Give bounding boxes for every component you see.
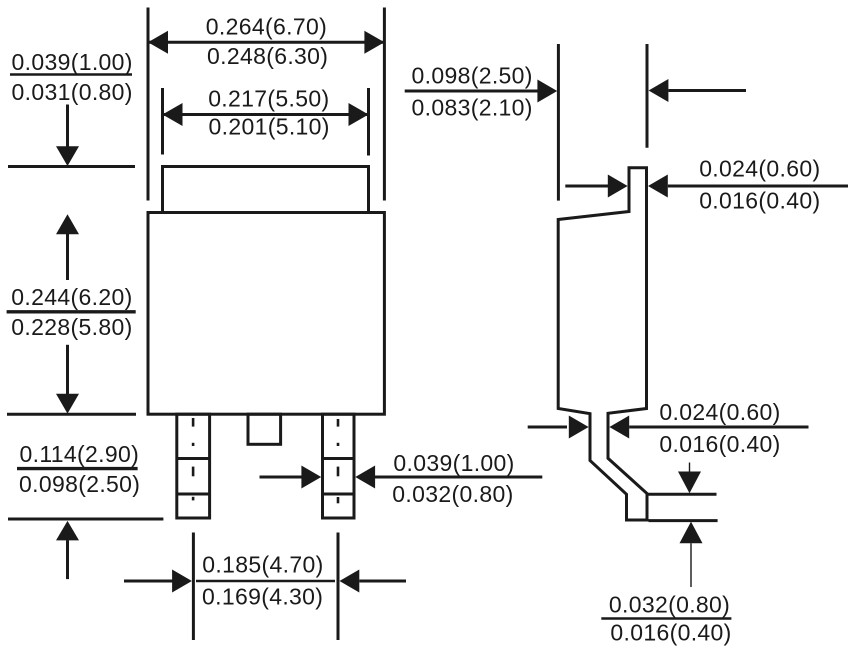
dim G extension line right (lead centerline) (337, 533, 340, 641)
svg-text:0.098(2.50): 0.098(2.50) (19, 471, 140, 497)
dim I right arrowhead (points left) (648, 175, 668, 198)
svg-text:0.039(1.00): 0.039(1.00) (393, 450, 514, 476)
dim E up arrowhead (56, 521, 79, 541)
dim K lower reference line (649, 519, 718, 522)
dim B extension line left (161, 88, 164, 155)
svg-text:0.032(0.80): 0.032(0.80) (392, 481, 513, 507)
dim H right arrowhead (points left) (649, 79, 669, 102)
dim J right arrow line / fraction bar (629, 426, 808, 429)
package side view outline (558, 168, 647, 520)
svg-text:0.185(4.70): 0.185(4.70) (202, 551, 323, 577)
right lead bend line 1 (323, 457, 355, 460)
dim I right arrow line / fraction bar (668, 185, 848, 188)
dim F right-pointing arrow line (260, 476, 303, 479)
dim G left outside arrow line (124, 580, 174, 583)
dim A extension line right (383, 8, 386, 201)
dim H left arrowhead (points right) (537, 80, 557, 103)
svg-text:0.024(0.60): 0.024(0.60) (699, 156, 820, 182)
dim K up arrow thin tail (690, 543, 692, 587)
svg-text:0.032(0.80): 0.032(0.80) (609, 591, 730, 617)
left lead bend line 2 (177, 493, 210, 496)
svg-text:0.016(0.40): 0.016(0.40) (659, 431, 780, 457)
svg-text:0.098(2.50): 0.098(2.50) (412, 63, 533, 89)
dim B 0.217/0.201 dimension line (163, 113, 369, 116)
center stub lead front view (248, 414, 281, 444)
dim F left arrow tail / fraction bar (375, 476, 542, 479)
mounting tab front view (163, 167, 369, 213)
svg-text:0.039(1.00): 0.039(1.00) (12, 49, 133, 75)
dim J right arrowhead (points left) (609, 416, 629, 439)
dim E up arrow line (66, 540, 69, 579)
svg-text:0.228(5.80): 0.228(5.80) (11, 314, 132, 340)
dim D up arrow line (66, 234, 69, 280)
dim C reference line (tab top level) (8, 165, 135, 168)
dim K upper reference line (649, 493, 717, 496)
dim D down arrowhead (56, 394, 79, 414)
dim H left arrow line / fraction bar (405, 90, 538, 93)
right lead bend line 2 (323, 493, 355, 496)
left lead centerline marks (192, 418, 195, 500)
package body front view (148, 213, 384, 415)
dim F right-pointing arrowhead (301, 466, 321, 489)
svg-text:0.169(4.30): 0.169(4.30) (202, 583, 323, 609)
dim G left arrowhead (172, 570, 192, 593)
dim B extension line right (367, 88, 370, 156)
dim K fraction bar (601, 617, 731, 619)
dim A arrowhead right (364, 31, 384, 54)
svg-text:0.264(6.70): 0.264(6.70) (206, 13, 327, 39)
dim C fraction bar (10, 73, 132, 76)
svg-text:0.201(5.10): 0.201(5.10) (209, 113, 330, 139)
dim J left arrowhead (points right) (569, 416, 589, 439)
dim E reference line (lead bottom level) (8, 518, 163, 521)
right lead front view (323, 414, 355, 518)
svg-text:0.024(0.60): 0.024(0.60) (659, 399, 780, 425)
svg-text:0.248(6.30): 0.248(6.30) (207, 43, 328, 69)
dim D fraction bar (7, 310, 136, 313)
dim C down arrow line (66, 105, 69, 148)
svg-text:0.031(0.80): 0.031(0.80) (12, 79, 133, 105)
dim E fraction bar (17, 467, 138, 470)
dim B arrowhead right (349, 103, 369, 126)
left lead bend line 1 (177, 457, 210, 460)
dim D reference line (body bottom level) (7, 413, 136, 416)
dim H right arrow line (668, 89, 746, 92)
dim H extension line right (646, 44, 649, 148)
right lead centerline marks (337, 419, 340, 503)
dim G fraction bar / dimension line (196, 580, 335, 582)
svg-text:0.016(0.40): 0.016(0.40) (699, 188, 820, 214)
dim H extension line left (557, 44, 560, 201)
dim K up arrowhead (680, 522, 703, 544)
svg-text:0.244(6.20): 0.244(6.20) (11, 284, 132, 310)
left lead front view (177, 414, 210, 518)
dim K down arrowhead (678, 472, 701, 494)
dim A 0.264/0.248 dimension line (148, 41, 384, 44)
dim C down arrowhead (56, 146, 79, 166)
dim B arrowhead left (163, 103, 183, 126)
dim K down arrow thin tail (689, 463, 691, 473)
dim G right outside arrow line (359, 580, 406, 583)
svg-text:0.016(0.40): 0.016(0.40) (610, 619, 731, 645)
dim F left-pointing arrowhead (355, 466, 375, 489)
svg-text:0.217(5.50): 0.217(5.50) (208, 85, 329, 111)
dim D up arrowhead (56, 214, 79, 234)
svg-text:0.114(2.90): 0.114(2.90) (20, 441, 140, 467)
dim I left arrow line (565, 185, 608, 188)
dim A extension line left (147, 8, 150, 201)
dim D down arrow line (66, 345, 69, 394)
svg-text:0.083(2.10): 0.083(2.10) (412, 95, 533, 121)
dim G right arrowhead (340, 570, 360, 593)
dim J left arrow line (528, 426, 567, 429)
dim A arrowhead left (148, 31, 168, 54)
dim I left arrowhead (points right) (608, 175, 628, 198)
dim G extension line left (lead centerline) (192, 533, 195, 641)
